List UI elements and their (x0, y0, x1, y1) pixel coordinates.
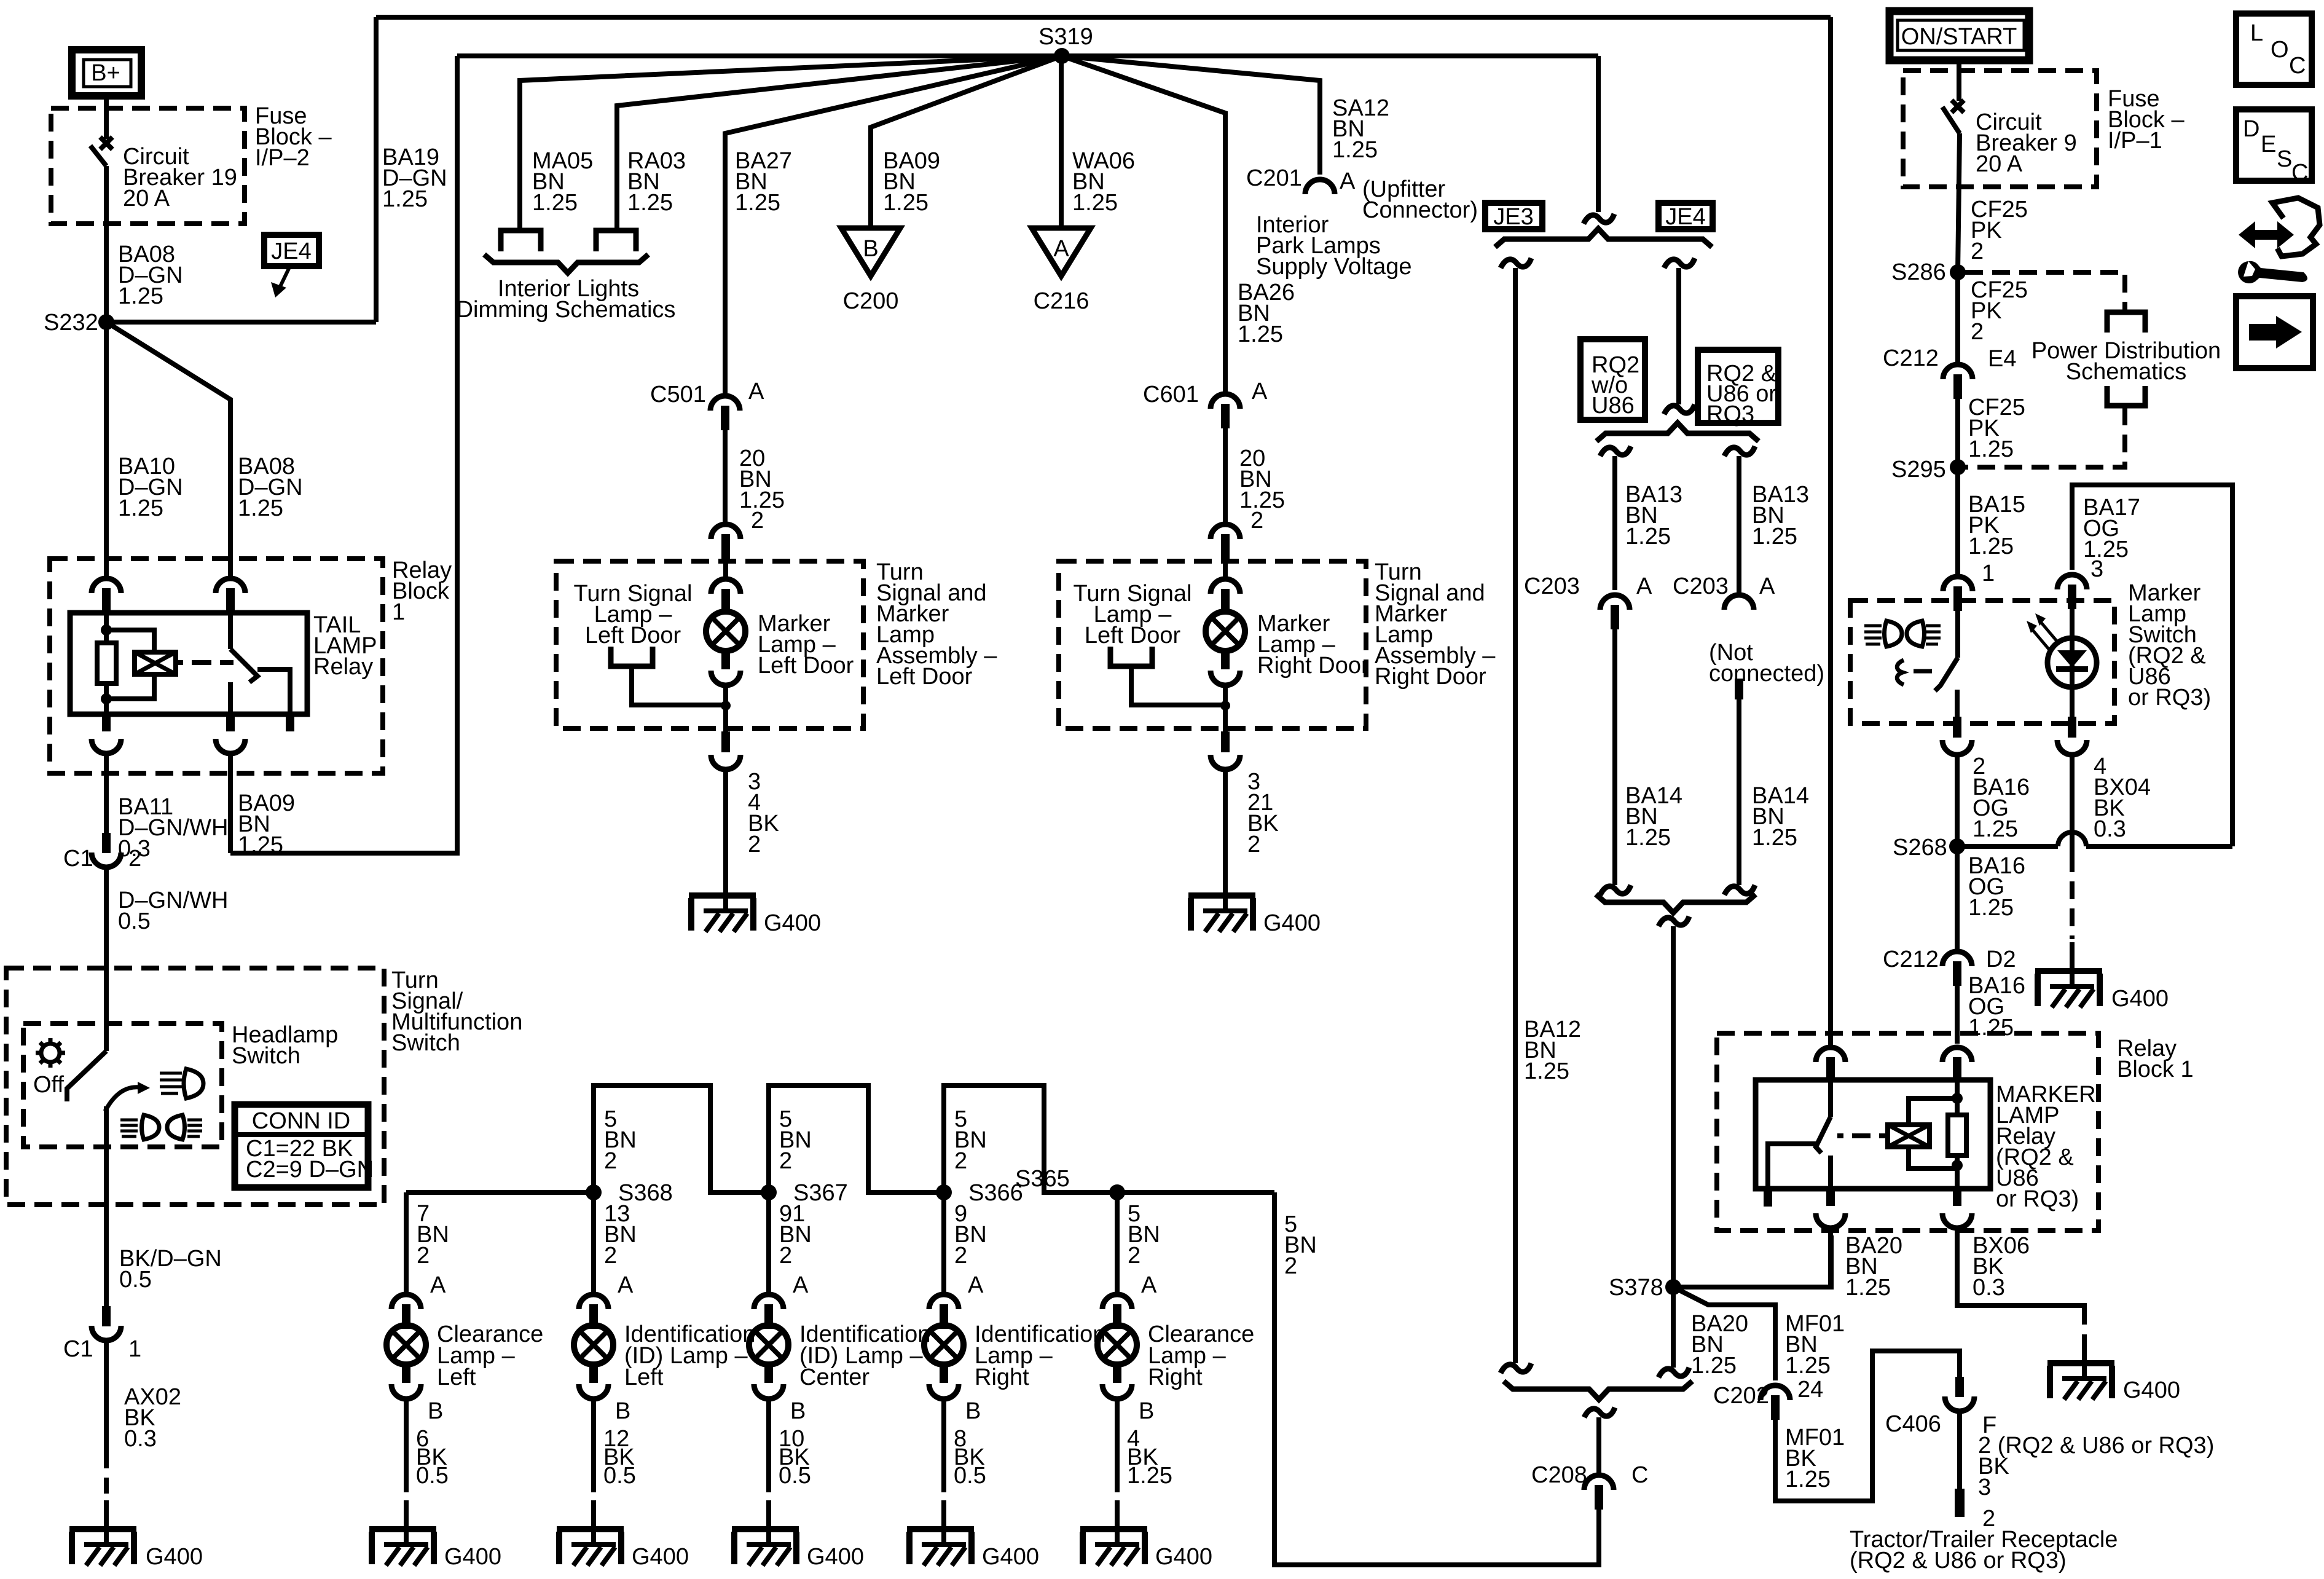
stub C203 right mating half (1735, 679, 1743, 699)
wire BA12 long vertical (1513, 268, 1518, 1363)
connector marker lamp switch pin 1 (1943, 577, 1973, 611)
connector marker lamp switch pin 3 (2057, 575, 2087, 609)
svg-text:C: C (2289, 53, 2306, 79)
ground G400 BX06 (2047, 1334, 2114, 1400)
svg-text:E4: E4 (1988, 346, 2016, 372)
splice S366 (936, 1184, 952, 1200)
svg-text:1.25: 1.25 (118, 495, 163, 521)
brace JE3 JE4 (1495, 229, 1712, 247)
connector marker relay pin bottom left (1826, 1189, 1835, 1206)
svg-text:Right Door: Right Door (1375, 664, 1486, 690)
wire S319 bus corner down to JE3/JE4 (1596, 56, 1601, 212)
break symbol BA14 left bottom (1600, 885, 1631, 895)
wire BA08 breaker to S232 (104, 166, 109, 322)
CONN ID table (235, 1105, 368, 1187)
wire D-GN/WH to headlamp switch (104, 867, 109, 1051)
svg-text:Off: Off (33, 1072, 64, 1098)
break symbol below C202 brace (1584, 1408, 1615, 1417)
svg-text:2: 2 (128, 846, 141, 872)
headlamp switch park/head icon (160, 1073, 182, 1093)
wire fan S319 to SA12 C201 (1062, 56, 1320, 175)
wire S378 to marker relay (1673, 1235, 1831, 1287)
svg-text:Right Door: Right Door (1257, 653, 1369, 679)
wire BA13 left (1612, 456, 1617, 590)
svg-text:Left: Left (624, 1364, 664, 1390)
svg-text:1.25: 1.25 (1785, 1467, 1831, 1492)
svg-text:2: 2 (779, 1148, 792, 1174)
splice S368 (586, 1184, 602, 1200)
svg-text:C212: C212 (1883, 345, 1939, 371)
wire CF25 to S295 (1955, 396, 1960, 467)
LOC legend box (2236, 14, 2312, 85)
svg-text:E: E (2261, 132, 2276, 157)
svg-text:0.5: 0.5 (603, 1463, 636, 1489)
wire MF01 BK (1775, 1351, 1960, 1501)
svg-text:S232: S232 (44, 310, 98, 336)
wire fan S319 to BA09 C200 (871, 56, 1062, 228)
connector C202 MF01 pin 24 (1761, 1385, 1790, 1420)
svg-text:1.25: 1.25 (1072, 190, 1118, 216)
break symbol top of JE brace (1584, 214, 1614, 224)
svg-text:G400: G400 (1155, 1544, 1212, 1570)
svg-text:1.25: 1.25 (1973, 816, 2018, 842)
connector terminal B identification lamp right (929, 1384, 959, 1399)
connector C pin2 right door (1211, 524, 1240, 559)
svg-text:20 A: 20 A (123, 186, 170, 211)
svg-text:C501: C501 (650, 382, 706, 408)
circuit breaker 19 blade (90, 146, 106, 166)
break symbol BA13 right top (1724, 446, 1755, 456)
wire CF25 to S286 (1958, 133, 1960, 272)
svg-text:D: D (2243, 116, 2259, 142)
marker relay NC stub (1764, 1189, 1772, 1207)
svg-text:C202: C202 (1713, 1383, 1769, 1409)
connector C212 E4 (1943, 364, 1973, 399)
svg-text:C1: C1 (63, 846, 93, 872)
svg-text:S268: S268 (1893, 835, 1947, 860)
svg-text:1.25: 1.25 (627, 190, 673, 216)
tail lamp relay coil link dashes (176, 660, 234, 665)
wire BA09 relay to riser (228, 754, 233, 853)
relay block 1 dashed box left (50, 559, 383, 773)
svg-text:2: 2 (1971, 238, 1984, 264)
break symbol JE4 branch bottom (1664, 404, 1695, 414)
svg-text:1.25: 1.25 (1332, 137, 1378, 163)
svg-text:CONN ID: CONN ID (252, 1108, 350, 1134)
wire BA16 pin2 to S268 (1955, 755, 1960, 846)
break symbol BA14 right bottom (1724, 885, 1755, 895)
svg-text:1.25: 1.25 (1625, 825, 1671, 851)
svg-text:Connector): Connector) (1362, 197, 1478, 223)
brace C202 (1504, 1381, 1692, 1400)
svg-text:Right: Right (1148, 1364, 1203, 1390)
power distribution schematics component (2107, 312, 2145, 333)
svg-text:1.25: 1.25 (739, 487, 785, 513)
svg-text:C208: C208 (1531, 1462, 1587, 1488)
svg-text:2: 2 (1128, 1243, 1140, 1269)
svg-text:B: B (790, 1398, 806, 1424)
svg-text:0.3: 0.3 (124, 1426, 157, 1452)
svg-text:Block 1: Block 1 (2117, 1057, 2194, 1082)
connector C pin3 right door (1221, 731, 1230, 752)
continue arrow box (2236, 296, 2313, 368)
connector lamp terminal A left door (711, 579, 740, 613)
svg-text:A: A (748, 379, 764, 404)
connector relay pin top left (92, 578, 121, 613)
connector C pin2 left door (711, 524, 740, 559)
marker lamp switch output (1955, 690, 1960, 717)
svg-text:O: O (2271, 37, 2289, 63)
wire BA15 PK (1955, 467, 1960, 574)
svg-text:U86: U86 (1592, 393, 1635, 419)
wire fan S319 to MA05 (520, 56, 1062, 229)
marker relay coil box (1888, 1125, 1929, 1147)
headlamp switch head icon pair (120, 1120, 138, 1136)
connector C201 upfitter (1305, 179, 1335, 194)
svg-text:1.25: 1.25 (1752, 825, 1797, 851)
wire AX02 dashed to ground (104, 1451, 109, 1494)
svg-text:G400: G400 (1263, 910, 1321, 936)
break symbol BA20 bottom (1659, 1368, 1689, 1377)
B+ battery feed terminal (72, 50, 141, 96)
break symbol BA12 top (1501, 258, 1531, 268)
wire BA14 left (1612, 627, 1617, 885)
svg-text:A: A (1636, 573, 1652, 599)
marker relay switch (1828, 1080, 1833, 1117)
marker lamp switch dashed box (1850, 600, 2114, 723)
connector terminal B clearance lamp right (1102, 1384, 1132, 1399)
ground G400 identification lamp center (732, 1500, 799, 1565)
wire C208 to lamp chain (1274, 1192, 1599, 1565)
svg-text:C216: C216 (1034, 288, 1089, 314)
svg-text:B: B (1139, 1398, 1154, 1424)
splice S378 (1665, 1279, 1681, 1295)
wire S232 to relay left pin (104, 322, 109, 576)
ground G400 headlamp switch (69, 1500, 136, 1565)
wire CF25 S286 to C212 (1955, 272, 1960, 362)
svg-text:G400: G400 (2111, 986, 2169, 1012)
wire JE4 branch (1676, 268, 1681, 404)
wire feed clearance lamp left (404, 1192, 409, 1292)
JE4 reference box (1659, 203, 1713, 229)
svg-text:1.25: 1.25 (532, 190, 578, 216)
svg-text:(RQ2 & U86 or RQ3): (RQ2 & U86 or RQ3) (1850, 1548, 2067, 1573)
svg-text:Left: Left (437, 1364, 476, 1390)
headlamp switch off gear icon (41, 1044, 60, 1062)
splice S268 (1949, 838, 1965, 854)
svg-text:A: A (1053, 236, 1069, 262)
brace RQ2 options (1596, 423, 1759, 441)
wire to tractor trailer receptacle (1957, 1411, 1962, 1489)
connector terminal B identification lamp left (579, 1384, 608, 1399)
svg-text:C212: C212 (1883, 947, 1939, 972)
svg-text:0.3: 0.3 (2094, 816, 2126, 842)
fuse block I/P-1 dashed box (1903, 71, 2097, 187)
wire fan S319 to WA06 C216 (1059, 56, 1064, 228)
connector marker relay pin top left (1816, 1047, 1845, 1082)
wire BX04 to ground (2070, 755, 2075, 854)
svg-text:2: 2 (604, 1148, 617, 1174)
wire S268 to BA17 with crossover hop (1957, 844, 2058, 849)
tail lamp relay coil box (135, 652, 176, 674)
wire S232 to BA19 riser (106, 320, 376, 325)
ground G400 left door (689, 867, 756, 932)
svg-text:Left Door: Left Door (758, 653, 854, 679)
svg-text:C203: C203 (1673, 573, 1729, 599)
lamp identification lamp left (574, 1307, 613, 1383)
svg-text:connected): connected) (1709, 661, 1824, 687)
wire BA19 riser up (374, 17, 379, 322)
break symbol JE4 branch top (1664, 258, 1695, 268)
turn signal lamp bracket left door (611, 647, 653, 666)
svg-text:A: A (430, 1272, 446, 1298)
terminal bracket RA03 (596, 230, 636, 251)
wire lamp to pin3 right door (1223, 706, 1228, 731)
svg-text:1.25: 1.25 (1691, 1353, 1737, 1379)
svg-text:S295: S295 (1891, 457, 1946, 482)
svg-text:3: 3 (1978, 1475, 1991, 1500)
svg-text:1.25: 1.25 (238, 495, 283, 521)
svg-text:B: B (965, 1398, 981, 1424)
svg-text:I/P–2: I/P–2 (255, 145, 310, 171)
svg-text:1.25: 1.25 (382, 186, 428, 212)
headlamp switch position arrow (105, 1087, 139, 1111)
wire BK to ground right door (1223, 770, 1228, 867)
svg-text:or RQ3): or RQ3) (1996, 1186, 2079, 1212)
svg-text:G400: G400 (632, 1544, 689, 1570)
connector C501 (710, 396, 740, 430)
dashed box turn signal and marker lamp assembly right door (1059, 561, 1366, 728)
svg-text:2: 2 (1247, 832, 1260, 857)
connector terminal A identification lamp right (929, 1294, 959, 1329)
turn signal multifunction switch dashed box (6, 968, 384, 1205)
svg-text:0.5: 0.5 (118, 908, 151, 934)
brace BA14 merge (1596, 894, 1756, 913)
ground G400 BX04 (2035, 942, 2102, 1007)
wire feed identification lamp right (941, 1192, 946, 1292)
svg-text:B+: B+ (91, 60, 120, 86)
connector relay pin bottom middle (226, 714, 235, 731)
splice S319 (1054, 48, 1070, 64)
connector C216 triangle A (1032, 228, 1091, 276)
ground G400 clearance lamp left (369, 1500, 436, 1565)
svg-text:A: A (968, 1272, 984, 1298)
ground G400 right door (1188, 867, 1255, 932)
tail lamp relay coil circuit (104, 613, 109, 643)
wire BA16 S268 down to C212 D2 (1955, 846, 1960, 949)
wire BA19 along top (376, 15, 1831, 20)
connector C200 triangle B (841, 228, 900, 276)
svg-text:20 A: 20 A (1976, 151, 2023, 177)
svg-text:A: A (1252, 379, 1268, 404)
wire fan S319 to RA03 (617, 56, 1062, 229)
svg-text:1.25: 1.25 (1524, 1058, 1569, 1084)
headlamp switch dashed box (23, 1023, 222, 1147)
svg-text:A: A (1141, 1272, 1157, 1298)
JE4 reference box with arrow (264, 235, 319, 266)
connector C1 pin 1 (92, 1306, 121, 1341)
svg-text:Right: Right (975, 1364, 1029, 1390)
svg-text:S378: S378 (1609, 1275, 1663, 1301)
connector lamp terminal A right door (1211, 579, 1240, 613)
svg-text:S286: S286 (1891, 259, 1946, 285)
wire ground lead clearance lamp right (1115, 1399, 1120, 1492)
connector marker lamp switch pin 4 (2068, 717, 2076, 738)
wire feed identification lamp center (766, 1192, 771, 1292)
dashed link power distribution to S295 (1965, 408, 2125, 467)
svg-text:Center: Center (799, 1364, 870, 1390)
connector C pin3 left door (721, 731, 730, 752)
wire BA09 left leg from bus to relay (230, 56, 457, 853)
svg-text:S319: S319 (1038, 24, 1093, 50)
tail lamp relay switch (228, 613, 233, 649)
svg-text:C: C (1631, 1462, 1648, 1488)
svg-text:2: 2 (954, 1243, 967, 1269)
connector C406 F (1945, 1377, 1974, 1411)
wire ON/START to breaker 9 (1957, 60, 1961, 101)
connector C212 D2 (1942, 951, 1972, 986)
connector lamp terminal B left door (711, 671, 740, 685)
svg-text:1.25: 1.25 (735, 190, 780, 216)
ground G400 identification lamp right (907, 1500, 974, 1565)
wire BA16 to marker relay (1955, 983, 1960, 1044)
svg-text:1.25: 1.25 (1239, 487, 1285, 513)
relay block 1 dashed box right (1717, 1033, 2098, 1231)
svg-text:1.25: 1.25 (1238, 321, 1283, 347)
wire B+ to circuit breaker 19 (104, 96, 109, 139)
wire BK/D-GN to C1 pin1 (104, 1106, 109, 1306)
svg-text:1.25: 1.25 (1968, 895, 2014, 921)
svg-text:Switch: Switch (232, 1043, 300, 1069)
svg-text:C1: C1 (63, 1336, 93, 1362)
junction dot right door (1220, 701, 1230, 711)
terminal stub tractor trailer (1955, 1489, 1965, 1517)
wire BA17 loop (2072, 485, 2232, 846)
marker lamp switch head icon pair (1864, 626, 1882, 644)
wire ground lead clearance lamp left (404, 1399, 409, 1492)
wire BK to ground left door (723, 770, 728, 867)
svg-text:2: 2 (1971, 319, 1984, 345)
connector C1 pin 2 (92, 833, 121, 867)
wire fan S319 to BA26 C601 (1062, 56, 1225, 392)
connector terminal A clearance lamp right (1102, 1294, 1132, 1329)
svg-text:1: 1 (1982, 561, 1995, 586)
svg-text:24: 24 (1797, 1377, 1823, 1403)
tail lamp relay resistor (97, 643, 116, 683)
svg-text:C201: C201 (1246, 165, 1302, 191)
wire ground lead identification lamp left (591, 1399, 596, 1492)
svg-text:ON/START: ON/START (1901, 24, 2017, 50)
svg-text:C203: C203 (1524, 573, 1580, 599)
splice S232 (98, 314, 114, 330)
marker lamp switch mech link (1897, 660, 1904, 685)
connector lamp terminal B right door (1211, 671, 1240, 685)
wire fan S319 to BA27 (725, 56, 1062, 393)
svg-text:C: C (2291, 160, 2308, 186)
lamp identification lamp center (749, 1307, 788, 1383)
wire AX02 BK (104, 1341, 109, 1451)
svg-text:G400: G400 (444, 1544, 501, 1570)
wire S232 diagonal to relay right pin (106, 322, 230, 576)
connector terminal A identification lamp center (754, 1294, 783, 1329)
svg-text:1.25: 1.25 (1968, 534, 2014, 559)
svg-text:JE3: JE3 (1493, 204, 1533, 230)
connector terminal B clearance lamp left (391, 1384, 421, 1399)
svg-text:S: S (2277, 146, 2292, 172)
svg-text:Supply Voltage: Supply Voltage (1256, 254, 1412, 280)
break symbol BA12 bottom (1501, 1363, 1531, 1373)
tail lamp relay NO stub (286, 714, 294, 731)
marker relay coil link dashes (1837, 1133, 1888, 1138)
marker lamp left door (706, 593, 745, 669)
marker lamp switch LED wire (2070, 608, 2075, 717)
svg-text:1.25: 1.25 (1968, 1015, 2014, 1041)
svg-text:A: A (793, 1272, 809, 1298)
svg-text:1: 1 (128, 1336, 141, 1362)
terminal bracket MA05 (501, 230, 541, 251)
marker relay coil circuit (1955, 1080, 1960, 1115)
lamp clearance lamp left (387, 1307, 426, 1383)
svg-text:1.25: 1.25 (1625, 524, 1671, 549)
svg-text:2: 2 (748, 832, 761, 857)
svg-text:Dimming Schematics: Dimming Schematics (457, 297, 676, 323)
connector terminal A identification lamp left (579, 1294, 608, 1329)
brace interior lights dimming (484, 254, 648, 273)
circuit breaker 9 contact X (1952, 100, 1964, 112)
wire BA11 relay to C1 (104, 754, 109, 833)
connector terminal B identification lamp center (754, 1384, 783, 1399)
svg-text:2: 2 (604, 1243, 617, 1269)
repair icon wrench and arrows (2239, 221, 2294, 248)
headlamp switch blade (67, 1051, 106, 1101)
wire lamp chain bus (406, 1085, 1274, 1192)
svg-text:A: A (1340, 168, 1356, 194)
wire BA19 down right side (1828, 17, 1833, 1045)
marker relay resistor (1948, 1115, 1966, 1156)
ON/START feed box (1890, 11, 2029, 60)
break symbol below BA14 merge (1659, 916, 1689, 926)
svg-text:0.3: 0.3 (1973, 1275, 2005, 1301)
svg-text:2 (RQ2 & U86 or RQ3): 2 (RQ2 & U86 or RQ3) (1978, 1433, 2214, 1459)
junction dot left door (721, 701, 731, 711)
wire S378 diagonal to MF01 (1673, 1287, 1775, 1380)
wire BA13 right (1737, 456, 1741, 593)
svg-text:2: 2 (417, 1243, 430, 1269)
svg-text:G400: G400 (982, 1544, 1039, 1570)
tail lamp relay box (70, 613, 307, 714)
svg-text:Schematics: Schematics (2066, 359, 2186, 385)
svg-text:Left Door: Left Door (585, 623, 681, 648)
wire BX06 (1957, 1228, 2084, 1325)
DESC legend box (2236, 109, 2312, 181)
svg-text:0.5: 0.5 (779, 1463, 811, 1489)
svg-text:D2: D2 (1986, 947, 2016, 972)
svg-text:B: B (428, 1398, 443, 1424)
svg-text:1: 1 (392, 599, 405, 625)
connector marker relay pin bottom right (1953, 1189, 1961, 1206)
svg-text:I/P–1: I/P–1 (2108, 128, 2162, 154)
marker lamp switch LED (2047, 638, 2097, 687)
dashed link S286 to power distribution (1965, 272, 2125, 311)
svg-text:Switch: Switch (391, 1030, 460, 1056)
svg-text:B: B (615, 1398, 630, 1424)
svg-text:A: A (618, 1272, 634, 1298)
svg-text:B: B (863, 236, 878, 262)
wire feed identification lamp left (591, 1192, 596, 1292)
connector marker lamp switch pin 2 (1953, 717, 1961, 738)
svg-text:JE4: JE4 (1665, 204, 1705, 230)
turn signal lamp bracket right door (1110, 647, 1152, 666)
